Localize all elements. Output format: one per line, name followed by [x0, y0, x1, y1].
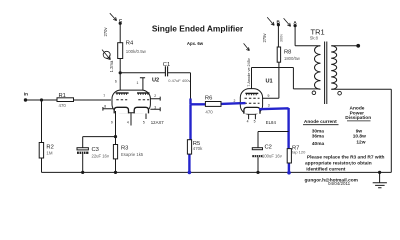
svg-text:7: 7	[103, 94, 105, 98]
wire node A to TR1 primary	[295, 26, 320, 46]
wire R3 to rail	[115, 159, 117, 173]
U1 cathode	[244, 107, 260, 113]
svg-text:1800/5w: 1800/5w	[284, 56, 301, 61]
wire U2 cathode down	[115, 111, 117, 137]
TR1 secondary winding	[331, 46, 337, 90]
tube U2 12AX7	[103, 78, 164, 126]
svg-text:R4: R4	[126, 41, 134, 47]
wire junction down to R2	[41, 100, 43, 143]
table anode current	[304, 106, 371, 147]
node anode junction	[119, 71, 122, 74]
wire node C to R4	[119, 23, 121, 42]
capacitor C2	[252, 145, 282, 159]
svg-text:R2: R2	[46, 144, 53, 150]
svg-text:270v: 270v	[103, 27, 108, 37]
TR1 primary winding	[315, 46, 321, 90]
node C3 rail	[81, 171, 84, 174]
svg-text:C1: C1	[163, 62, 170, 68]
svg-text:5: 5	[254, 120, 256, 124]
U1 anode plate	[245, 92, 258, 94]
U2 anode plate left (pin 6)	[116, 92, 129, 94]
resistor R8	[277, 47, 301, 62]
U2 pin8 stub	[103, 107, 114, 111]
wire anode junction to C1	[120, 72, 165, 74]
wire node B to R8	[277, 25, 279, 47]
svg-text:tap 120: tap 120	[292, 150, 306, 155]
node R7 rail blue	[287, 171, 291, 175]
svg-text:100k/0.5w: 100k/0.5w	[126, 49, 147, 54]
svg-text:identified current: identified current	[306, 167, 346, 173]
svg-text:1.2ma: 1.2ma	[109, 60, 114, 72]
svg-text:2: 2	[154, 94, 156, 98]
U2 pin labels	[103, 80, 156, 125]
svg-text:4: 4	[247, 120, 249, 124]
svg-text:4: 4	[127, 120, 129, 124]
wire blue grid node to R6 and R5	[189, 99, 240, 173]
wire R8 to U1 pin9	[262, 62, 279, 98]
capacitor C1	[163, 62, 191, 83]
wire C2 to rail	[257, 157, 259, 172]
svg-text:C3: C3	[92, 147, 99, 153]
node cathode junction	[114, 135, 117, 138]
svg-text:470: 470	[205, 109, 213, 114]
svg-text:3: 3	[154, 105, 156, 109]
wire C3 to rail	[82, 154, 84, 173]
svg-text:C: C	[119, 18, 123, 23]
svg-text:22uF 16v: 22uF 16v	[92, 153, 110, 158]
U2 pin1 stub	[140, 78, 145, 91]
svg-text:5: 5	[143, 120, 145, 124]
wire TR1 secondary bottom to right rail	[332, 89, 392, 172]
svg-text:10.8w: 10.8w	[353, 133, 366, 139]
svg-text:Single Ended Amplifier: Single Ended Amplifier	[152, 24, 244, 34]
svg-text:12AX7: 12AX7	[151, 120, 165, 125]
svg-text:U1: U1	[266, 79, 273, 85]
svg-text:Esaprie 1k5: Esaprie 1k5	[121, 152, 144, 157]
title	[152, 24, 244, 47]
svg-text:A: A	[293, 20, 297, 25]
resistor R5	[187, 140, 203, 154]
node C	[119, 18, 123, 25]
probe arrow node C	[110, 13, 117, 20]
svg-text:R6: R6	[205, 96, 212, 102]
svg-text:Dissipation: Dissipation	[345, 115, 371, 121]
svg-text:appropriate resistor,to obtain: appropriate resistor,to obtain	[305, 161, 372, 167]
svg-text:EL84: EL84	[266, 120, 277, 125]
wire R2 to ground rail	[41, 158, 43, 172]
svg-text:7.Anode ve 245v: 7.Anode ve 245v	[247, 58, 251, 87]
svg-text:5k:8: 5k:8	[310, 35, 319, 40]
wire R1 to U2 pin7	[74, 99, 112, 101]
resistor R1	[57, 93, 74, 108]
svg-text:3: 3	[268, 104, 270, 108]
svg-text:R8: R8	[284, 50, 291, 56]
svg-text:100uF 16v: 100uF 16v	[262, 153, 283, 158]
note text	[305, 155, 385, 173]
svg-text:36ma: 36ma	[312, 133, 325, 139]
svg-text:40ma: 40ma	[312, 141, 325, 147]
ground	[373, 171, 387, 188]
node R5 rail blue	[188, 171, 192, 175]
svg-text:0.47uF 400v: 0.47uF 400v	[168, 78, 190, 83]
svg-text:C2: C2	[265, 145, 272, 151]
TR1 primary terminal circle	[312, 91, 316, 95]
node B	[277, 19, 281, 26]
wire TR1 secondary top to output	[332, 45, 359, 47]
svg-text:1: 1	[137, 81, 139, 85]
svg-text:30ma: 30ma	[312, 128, 325, 134]
svg-text:1M: 1M	[46, 151, 52, 156]
resistor R3	[113, 137, 143, 159]
TR1 core	[325, 42, 327, 105]
U2 anode plate right (pin 1)	[137, 92, 150, 94]
resistor R6	[205, 96, 221, 115]
svg-text:Apx. 6w: Apx. 6w	[187, 41, 204, 46]
svg-text:In: In	[24, 92, 28, 97]
wire anode junction into tube U2	[119, 73, 121, 93]
ground rail	[42, 171, 392, 173]
U1 grids	[245, 97, 260, 99]
svg-text:275v: 275v	[262, 33, 267, 43]
signature	[305, 177, 358, 186]
svg-text:9: 9	[268, 94, 270, 98]
svg-text:U2: U2	[152, 78, 159, 84]
transformer TR1	[310, 27, 341, 104]
svg-text:9: 9	[111, 120, 113, 124]
node output	[356, 44, 360, 48]
wire U1 cathode blue	[240, 103, 289, 173]
TR1 secondary terminal circle	[338, 91, 342, 95]
wire junction to C3	[83, 137, 116, 148]
probe arrow node B	[267, 17, 274, 25]
resistor R7	[287, 145, 306, 163]
wire U1 anode to TR1 primary bottom	[252, 68, 320, 90]
svg-text:2: 2	[234, 99, 236, 103]
svg-text:470k: 470k	[193, 146, 203, 151]
node In	[24, 92, 28, 102]
U2 grids	[116, 99, 127, 101]
capacitor C3	[77, 147, 110, 159]
node C2 rail	[256, 171, 259, 174]
svg-text:300v: 300v	[279, 34, 283, 42]
wire R4 to anode junction	[119, 59, 121, 73]
svg-text:Please replace the R3 and R7 w: Please replace the R3 and R7 with	[307, 155, 385, 161]
svg-text:470: 470	[59, 103, 67, 108]
wire C2 tap	[258, 132, 289, 148]
svg-text:12w: 12w	[356, 140, 365, 146]
svg-text:R1: R1	[59, 93, 66, 99]
wire input to R1	[26, 99, 58, 101]
ammeter probe 1.2ma	[102, 50, 110, 60]
U1 heater stubs	[249, 114, 256, 119]
resistor R2	[39, 143, 54, 159]
resistor R4	[118, 41, 147, 59]
U2 pin2 pin3 stubs	[150, 97, 160, 112]
node junction R1/R2	[40, 98, 43, 101]
tube U1 EL84	[234, 79, 277, 126]
svg-text:R3: R3	[121, 146, 128, 152]
U2 cathode right	[134, 107, 148, 113]
U2 cathode left	[114, 107, 128, 113]
U2 heater stubs	[131, 113, 146, 126]
svg-text:6: 6	[115, 80, 117, 84]
wire C1 to grid node	[168, 73, 191, 99]
svg-text:04/04/2011: 04/04/2011	[328, 181, 351, 186]
node R3 rail	[114, 171, 117, 174]
probe arrow node A	[284, 18, 291, 26]
table underlines	[303, 121, 371, 125]
svg-text:B: B	[277, 19, 281, 24]
probe arrow U1 anode	[244, 43, 250, 50]
svg-text:8: 8	[104, 104, 106, 108]
node A	[293, 20, 297, 27]
